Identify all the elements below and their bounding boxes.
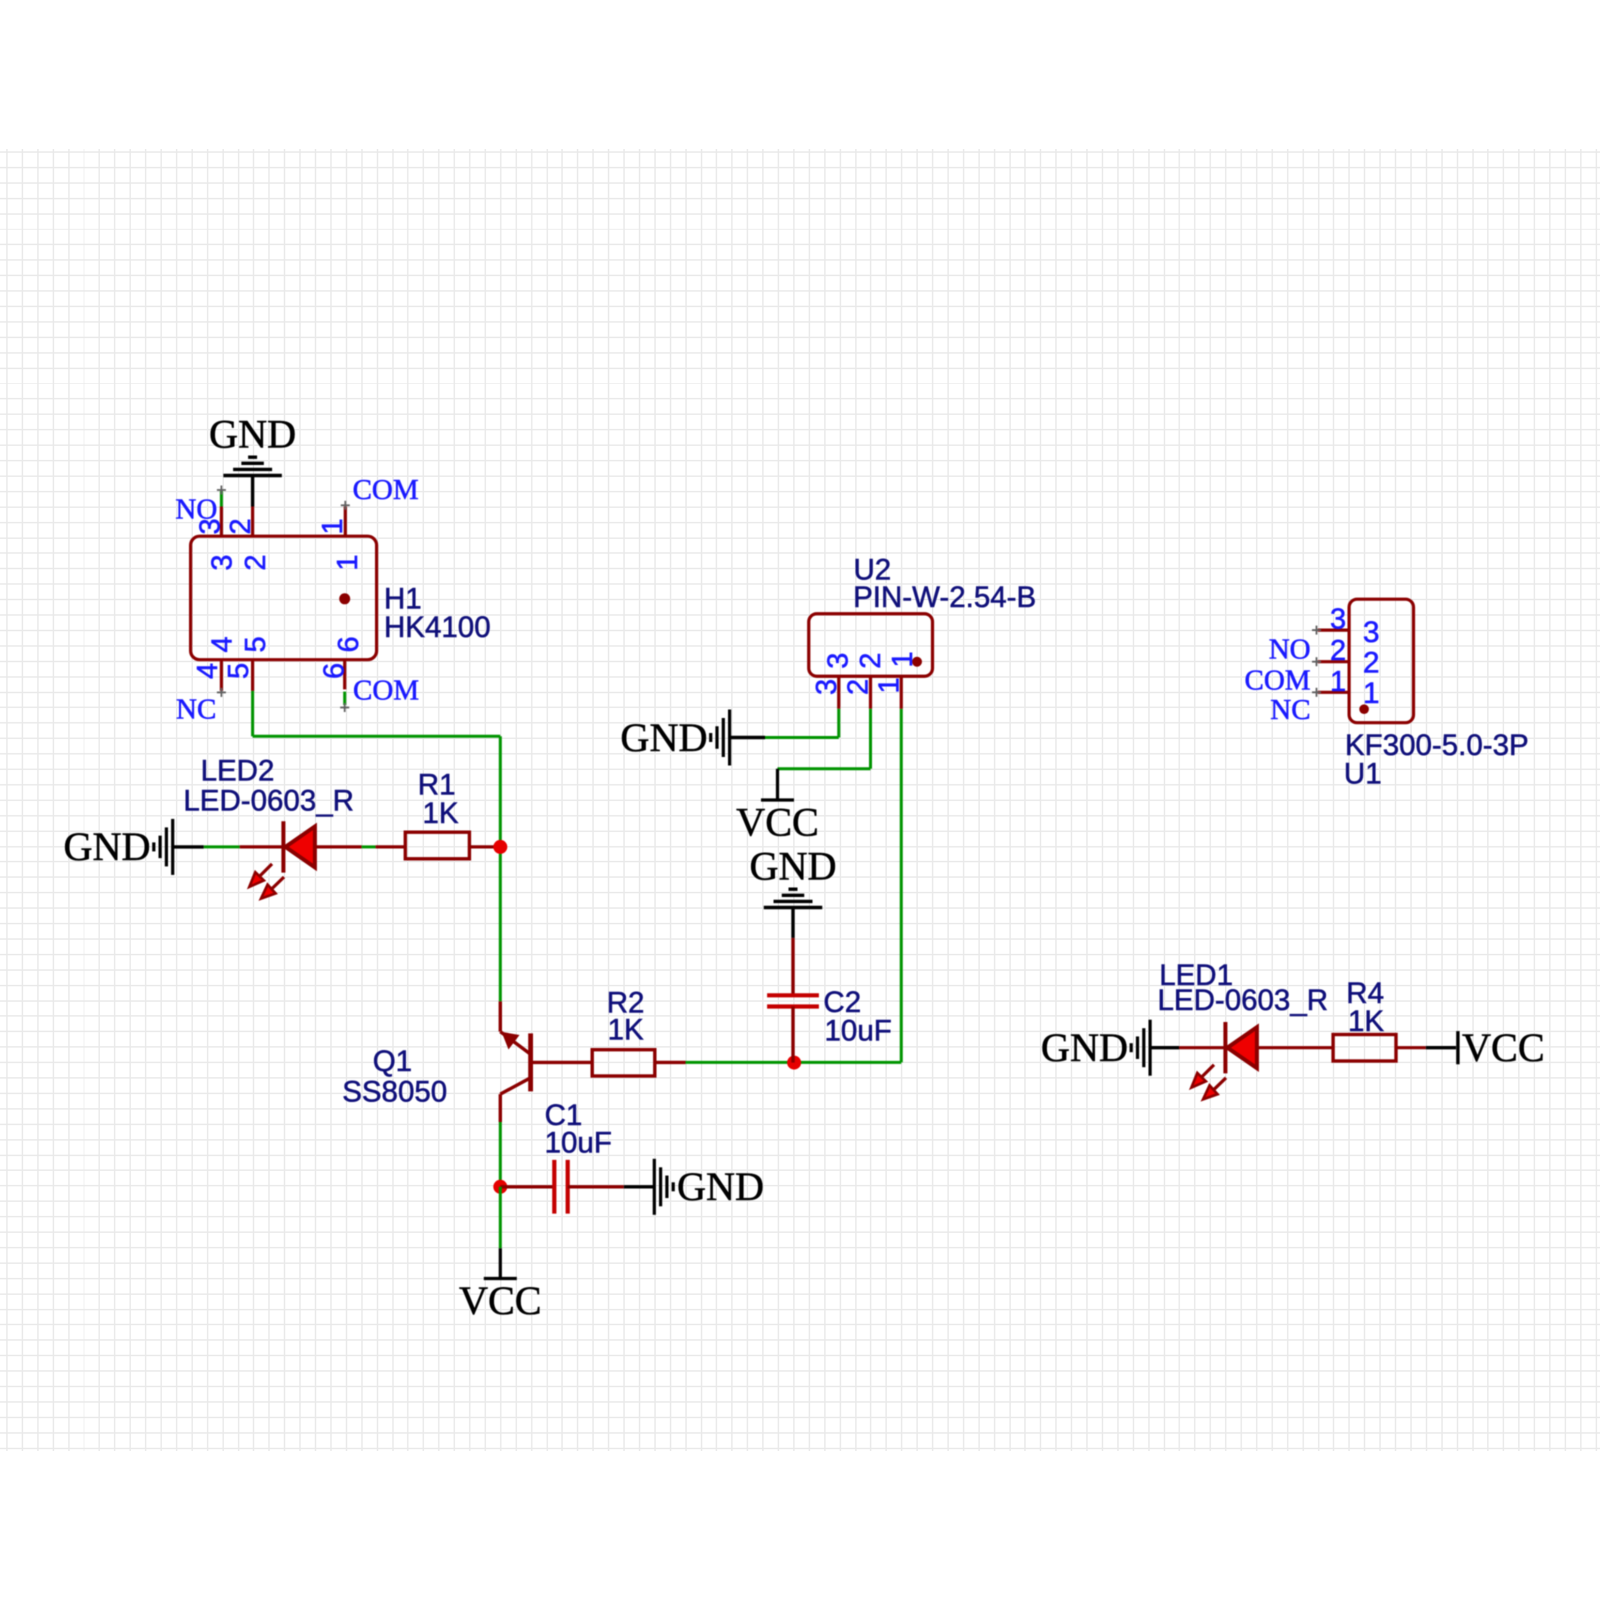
svg-text:LED-0603_R: LED-0603_R (1158, 984, 1329, 1017)
svg-text:PIN-W-2.54-B: PIN-W-2.54-B (853, 581, 1036, 614)
svg-text:1K: 1K (608, 1014, 644, 1047)
svg-text:2: 2 (855, 653, 887, 669)
svg-text:1: 1 (1330, 666, 1346, 698)
svg-text:3: 3 (206, 554, 238, 570)
svg-text:GND: GND (749, 844, 836, 889)
svg-text:1: 1 (873, 677, 905, 693)
svg-text:6: 6 (333, 636, 365, 652)
svg-text:3: 3 (811, 679, 843, 695)
svg-text:2: 2 (1363, 647, 1380, 680)
svg-text:NC: NC (1270, 694, 1310, 726)
svg-text:GND: GND (1041, 1025, 1128, 1070)
svg-text:10uF: 10uF (545, 1127, 612, 1160)
svg-text:1: 1 (887, 651, 919, 667)
svg-text:4: 4 (206, 636, 238, 652)
svg-text:GND: GND (64, 824, 151, 869)
svg-text:3: 3 (823, 653, 855, 669)
svg-text:HK4100: HK4100 (384, 611, 491, 644)
svg-text:1K: 1K (1348, 1005, 1384, 1038)
svg-text:VCC: VCC (1462, 1025, 1545, 1070)
svg-text:GND: GND (209, 412, 296, 457)
svg-text:LED-0603_R: LED-0603_R (183, 784, 354, 817)
svg-text:COM: COM (353, 474, 419, 506)
svg-text:U1: U1 (1344, 757, 1382, 790)
svg-text:GND: GND (620, 715, 707, 760)
svg-text:LED2: LED2 (201, 755, 275, 788)
svg-text:COM: COM (353, 675, 419, 707)
svg-text:NO: NO (1269, 634, 1311, 666)
svg-text:5: 5 (240, 636, 272, 652)
svg-text:COM: COM (1245, 664, 1311, 696)
svg-text:3: 3 (1330, 604, 1346, 636)
svg-text:VCC: VCC (736, 800, 819, 845)
svg-text:4: 4 (192, 663, 224, 679)
svg-text:6: 6 (319, 663, 351, 679)
svg-text:2: 2 (843, 679, 875, 695)
svg-text:2: 2 (240, 554, 272, 570)
svg-text:NC: NC (176, 694, 216, 726)
svg-text:GND: GND (677, 1164, 764, 1209)
svg-text:1: 1 (1363, 677, 1380, 710)
svg-text:Q1: Q1 (373, 1045, 412, 1078)
svg-text:1: 1 (332, 554, 364, 570)
svg-text:5: 5 (223, 663, 255, 679)
svg-text:NO: NO (175, 494, 217, 526)
svg-text:3: 3 (1363, 616, 1380, 649)
svg-text:10uF: 10uF (825, 1014, 892, 1047)
svg-text:SS8050: SS8050 (342, 1075, 447, 1108)
svg-text:VCC: VCC (459, 1278, 542, 1323)
svg-text:1K: 1K (423, 797, 459, 830)
svg-text:2: 2 (225, 518, 257, 534)
svg-text:1: 1 (317, 518, 349, 534)
svg-text:2: 2 (1330, 635, 1346, 667)
